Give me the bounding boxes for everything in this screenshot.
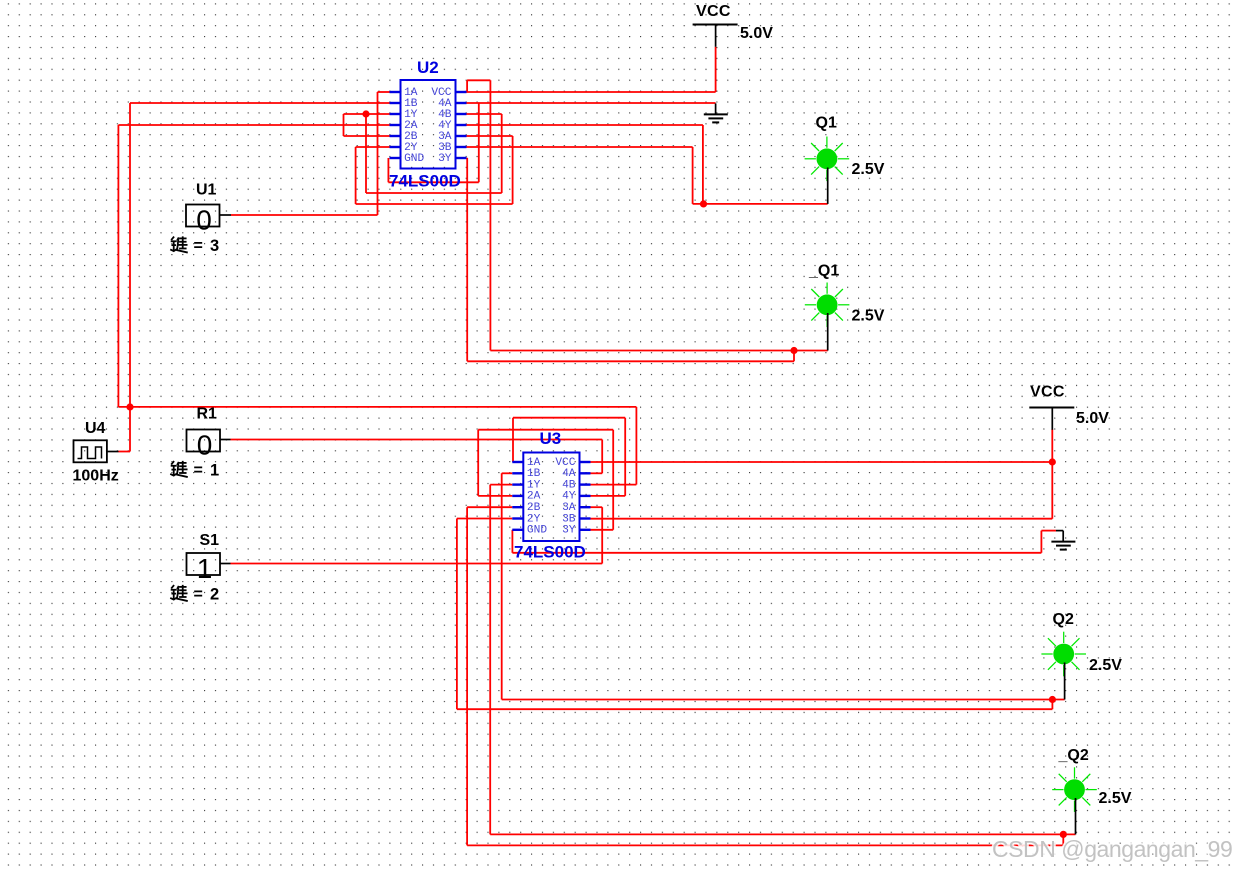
svg-text:0: 0	[196, 205, 212, 236]
node 1Y junction	[362, 110, 369, 117]
wire 3Y long vertical down	[466, 158, 468, 361]
wire bump long vertical down to _Q1 net	[489, 80, 491, 350]
wire 3Y pin segment U3	[591, 529, 614, 531]
wire into 4A pin	[591, 472, 603, 474]
wire 1A vertical U3	[512, 418, 514, 462]
svg-text:U2: U2	[417, 58, 439, 77]
wire 2Y pin segment	[356, 146, 390, 148]
svg-text:2B: 2B	[527, 502, 541, 514]
wire _Q2 net horizontal	[490, 833, 1075, 835]
wire R1 to U3 4A horizontal	[231, 439, 603, 441]
svg-text:3: 3	[210, 237, 219, 255]
wire VCC drop vertical	[715, 47, 717, 92]
wire clock-branch vertical left	[117, 125, 119, 407]
watermark CSDN	[992, 836, 1232, 862]
wire into 3A pin	[591, 506, 603, 508]
wire Q2 step vertical	[1051, 700, 1053, 710]
svg-text:100Hz: 100Hz	[73, 468, 119, 485]
wire 4B pin segment U3	[591, 484, 637, 486]
switch S1	[187, 553, 221, 584]
wire clock vertical (U4 to U2 1B)	[129, 103, 131, 452]
node VCC right junction	[1049, 458, 1056, 465]
wire 2B to _Q2 horizontal	[467, 844, 1063, 846]
svg-text:U4: U4	[85, 420, 106, 437]
svg-text:3A: 3A	[562, 502, 576, 514]
switch U1	[186, 205, 220, 236]
wire 1Y pin segment	[344, 113, 391, 115]
wire U4 output stub	[107, 451, 119, 453]
svg-text:CSDN @gangangan_99: CSDN @gangangan_99	[992, 836, 1232, 862]
wire 1A-4Y horizontal U3	[513, 417, 625, 419]
wire 3B row to VCC net	[591, 518, 1053, 520]
label key=3	[170, 236, 219, 255]
wire U2 GND horizontal	[388, 181, 478, 183]
node clock junction	[126, 403, 133, 410]
wire S1 output stub	[220, 563, 231, 565]
wire 2Y pin segment U3	[457, 518, 512, 520]
wire GND into ground right	[1041, 530, 1056, 532]
svg-text:1Y: 1Y	[527, 479, 541, 491]
switch R1	[187, 430, 221, 461]
wire 3Y vertical U3	[612, 430, 614, 530]
power VCC top	[693, 25, 738, 47]
wire U4 stub to clock vertical	[119, 451, 131, 453]
wire 3A pin segment	[467, 135, 513, 137]
wire 1B pin segment U3	[502, 472, 513, 474]
svg-text:3Y: 3Y	[438, 153, 452, 165]
wire U3 GND long horizontal	[512, 552, 1041, 554]
wire 1Y-2B loop vertical	[343, 114, 345, 136]
ground right	[1051, 531, 1075, 550]
wire 4Y pin segment U3	[591, 495, 626, 497]
svg-text:4A: 4A	[562, 468, 576, 480]
wire ground right stub	[1056, 530, 1063, 532]
node _Q2 junction	[1060, 831, 1067, 838]
probe _Q2 LED	[1052, 767, 1097, 812]
wire GND to 4A vertical	[478, 103, 480, 182]
svg-text:1: 1	[210, 462, 219, 480]
svg-text:2.5V: 2.5V	[1099, 790, 1132, 807]
op-amp U2 74LS00D chip	[390, 80, 467, 169]
svg-text:1B: 1B	[527, 468, 541, 480]
svg-text:Q2: Q2	[1053, 611, 1074, 628]
svg-text:2: 2	[210, 586, 219, 604]
wire GND step vertical right	[1040, 531, 1042, 553]
wire clock to 1B horizontal	[130, 102, 390, 104]
wire 2B pin segment U3	[467, 506, 512, 508]
node Q1 junction	[700, 200, 707, 207]
wire 4B pin segment	[467, 113, 502, 115]
wire 1B long vertical down	[501, 473, 503, 699]
wire VCC bump left vertical	[466, 80, 468, 92]
svg-text:VCC: VCC	[696, 3, 731, 20]
wire 3Y to _Q1 horizontal	[467, 360, 794, 362]
svg-text:4B: 4B	[562, 479, 576, 491]
wire 3A vertical	[512, 136, 514, 204]
wire into 2B pin	[344, 135, 391, 137]
wire to U2 2A horizontal	[118, 124, 390, 126]
svg-text:5.0V: 5.0V	[1076, 410, 1109, 427]
wire 3B row long horizontal	[467, 146, 693, 148]
svg-text:4Y: 4Y	[562, 491, 576, 503]
svg-text:3B: 3B	[562, 513, 576, 525]
svg-text:GND: GND	[527, 525, 547, 537]
wire 1Y pin segment U3	[490, 484, 512, 486]
node _Q1 junction	[790, 347, 797, 354]
svg-text:2.5V: 2.5V	[852, 161, 885, 178]
wire VCC bump top	[467, 79, 490, 81]
svg-text:2Y: 2Y	[527, 513, 541, 525]
wire 2Y loop vertical	[355, 147, 357, 204]
label key=2	[170, 585, 219, 604]
wire Q1 net horizontal	[693, 203, 828, 205]
wire Q1 probe lead	[827, 168, 829, 204]
wire U2 VCC row to VCC symbol	[467, 91, 716, 93]
wire U1 output to U2 1A horizontal	[231, 214, 378, 216]
wire S1 to U3 3A horizontal	[231, 563, 603, 565]
svg-text:1A: 1A	[527, 457, 541, 469]
wire 2B long vertical down	[466, 507, 468, 845]
wire R1-4A vertical	[601, 440, 603, 474]
wire Q2 net horizontal	[502, 699, 1065, 701]
svg-text:VCC: VCC	[1030, 384, 1065, 401]
wire _Q2 step vertical	[1062, 834, 1064, 845]
wire 2A-3Y horizontal U3	[478, 429, 613, 431]
svg-text:R1: R1	[197, 405, 218, 422]
svg-text:2.5V: 2.5V	[1089, 657, 1122, 674]
wire _Q1 probe lead	[827, 313, 829, 351]
probe _Q1 LED	[805, 283, 850, 328]
svg-text:1: 1	[197, 553, 213, 584]
svg-text:74LS00D: 74LS00D	[389, 172, 461, 191]
wire 2Y to 3A horizontal	[356, 203, 513, 205]
svg-text:=: =	[194, 238, 203, 255]
wire U1 output stub	[220, 214, 231, 216]
wire 3Y pin segment	[466, 157, 468, 159]
wire U3 GND vertical	[511, 530, 513, 553]
power VCC right	[1029, 408, 1074, 430]
svg-text:=: =	[194, 586, 203, 603]
svg-text:S1: S1	[200, 532, 220, 549]
wire 1Y to 4B horizontal	[366, 192, 502, 194]
wire 2A pin segment U3	[478, 495, 512, 497]
svg-text:GND: GND	[404, 153, 424, 165]
svg-text:_Q2: _Q2	[1058, 747, 1089, 764]
wire R1 output stub	[220, 439, 231, 441]
svg-text:2A: 2A	[527, 491, 541, 503]
wire 2Y long vertical down	[456, 519, 458, 710]
wire S1-3A vertical	[601, 507, 603, 563]
svg-text:_Q1: _Q1	[808, 263, 839, 280]
wire 4B vertical	[501, 114, 503, 193]
probe Q2 LED	[1041, 632, 1086, 677]
wire 4B vertical U3	[635, 407, 637, 485]
svg-text:74LS00D: 74LS00D	[514, 543, 586, 562]
wire U3 VCC row to VCC right	[591, 461, 1053, 463]
wire 1Y branch vertical	[365, 114, 367, 193]
wire Q2 probe lead	[1064, 663, 1066, 700]
wire 2A vertical U3	[477, 430, 479, 496]
wire _Q1 step vertical	[793, 351, 795, 362]
probe Q1 LED	[805, 137, 850, 182]
svg-text:Q1: Q1	[816, 114, 837, 131]
svg-text:2.5V: 2.5V	[852, 308, 885, 325]
svg-text:5.0V: 5.0V	[740, 25, 773, 42]
svg-text:=: =	[194, 462, 203, 479]
wire U1-1A vertical	[377, 92, 379, 215]
svg-text:3Y: 3Y	[562, 525, 576, 537]
svg-text:VCC: VCC	[555, 457, 575, 469]
wire 2Y to Q2 horizontal	[457, 708, 1053, 710]
svg-text:0: 0	[197, 430, 213, 461]
wire 4Y row long horizontal	[467, 124, 703, 126]
wire VCC right vertical	[1051, 429, 1053, 518]
wire 1Y long vertical down	[489, 485, 491, 835]
wire clock net to U3 4B long horizontal	[118, 406, 636, 408]
op-amp U3 74LS00D chip	[512, 453, 590, 542]
svg-text:U3: U3	[540, 429, 562, 448]
wire 4Y vertical U3	[624, 418, 626, 496]
svg-text:U1: U1	[196, 181, 217, 198]
wire into 1A pin	[378, 91, 391, 93]
label key=1	[170, 461, 219, 480]
wire 3B vertical down	[692, 147, 694, 204]
wire 4Y vertical down	[702, 125, 704, 204]
wire U2 GND vertical	[387, 158, 389, 182]
wire 4A row to ground symbol	[467, 102, 716, 104]
wire _Q2 probe lead	[1075, 798, 1077, 834]
ground top	[704, 103, 728, 122]
node Q2 junction	[1049, 696, 1056, 703]
wire _Q1 net horizontal	[490, 350, 827, 352]
oscillator U4 100Hz	[74, 440, 107, 462]
